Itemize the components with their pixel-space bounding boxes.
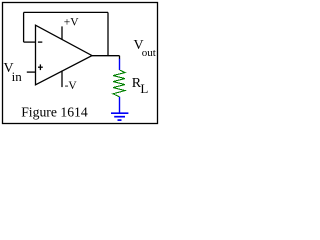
svg-text:-V: -V (65, 80, 78, 92)
wire -V supply stub (61, 71, 63, 88)
wire +V supply stub (61, 26, 63, 39)
ground symbol (111, 113, 128, 120)
label RL (132, 76, 149, 96)
wire feedback left vertical (23, 12, 25, 42)
svg-text:out: out (142, 47, 156, 59)
op-amp U1 (36, 25, 93, 85)
svg-text:L: L (140, 81, 148, 96)
op-amp inverting input marker - (38, 41, 42, 43)
wire feedback right vertical (107, 12, 109, 55)
op-amp non-inverting input marker + (38, 64, 43, 70)
border frame (3, 3, 158, 124)
wire inverting input (24, 41, 36, 43)
wire non-inverting input from Vin (27, 71, 36, 73)
svg-text:in: in (12, 69, 23, 84)
resistor RL top lead (119, 59, 121, 70)
resistor RL bottom lead (119, 97, 121, 113)
wire output corner down (119, 56, 121, 60)
svg-text:Figure 1614: Figure 1614 (21, 105, 88, 120)
resistor RL zigzag (113, 70, 125, 97)
wire output (92, 55, 120, 57)
label Vout (134, 38, 156, 59)
svg-text:+V: +V (64, 16, 79, 28)
label Vin (4, 61, 23, 84)
wire feedback top horizontal (24, 11, 108, 13)
